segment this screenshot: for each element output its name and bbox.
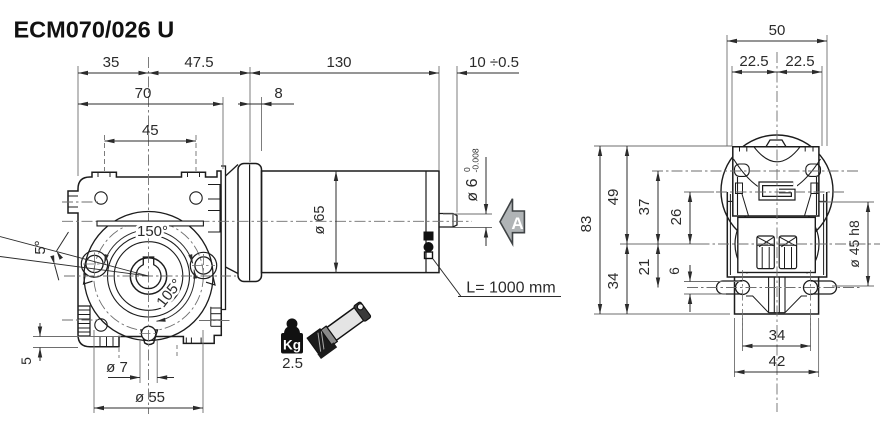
corner bolt circle top-right bbox=[190, 192, 202, 204]
dimension 49 bbox=[626, 146, 628, 244]
svg-text:21: 21 bbox=[636, 259, 653, 276]
svg-text:45: 45 bbox=[142, 122, 159, 139]
extension line slot top bbox=[684, 281, 742, 283]
flange bell cone bbox=[226, 165, 239, 274]
dimension 21 bbox=[657, 244, 659, 288]
motor body cylinder bbox=[262, 171, 440, 273]
extension lines dia 7 bbox=[139, 340, 141, 383]
svg-text:34: 34 bbox=[605, 273, 622, 290]
svg-text:ECM070/026 U: ECM070/026 U bbox=[14, 16, 175, 42]
logo G white plate bbox=[758, 180, 797, 201]
motor end cap line bbox=[425, 171, 427, 273]
output hub circle dia45 bbox=[735, 202, 819, 286]
white sliver cover under terminal box bbox=[741, 273, 813, 276]
centerline left boss stub bbox=[62, 201, 100, 203]
svg-text:70: 70 bbox=[135, 85, 152, 102]
extension line slot bottom bbox=[684, 293, 726, 295]
dashed stub below left foot bbox=[118, 348, 120, 358]
top tab ticks bbox=[97, 172, 99, 177]
extension line top edge bbox=[594, 145, 732, 147]
svg-text:34: 34 bbox=[769, 327, 786, 344]
extension line 45 right dashed bbox=[195, 135, 197, 171]
extension line motor rear face bbox=[438, 66, 440, 170]
hole centerline right vertical bbox=[810, 270, 812, 330]
right foot ribs bbox=[185, 338, 187, 344]
5 degree rays bbox=[0, 237, 149, 277]
gearmotor pictogram icon bbox=[306, 300, 374, 359]
cap sag arc outer bbox=[734, 159, 821, 193]
svg-text:-0.008: -0.008 bbox=[471, 148, 481, 172]
svg-text:37: 37 bbox=[636, 199, 653, 216]
leader L=1000mm bbox=[433, 259, 461, 297]
cap top tick marks bbox=[739, 147, 741, 152]
extension line output axis bbox=[620, 243, 700, 245]
centerline right rib stub bbox=[199, 320, 231, 322]
right lower rib marks bbox=[210, 307, 212, 327]
centerline motor axis horizontal bbox=[62, 220, 472, 222]
terminal right bbox=[779, 236, 796, 269]
centerline upper slot level bbox=[652, 170, 858, 172]
dimension dia 7 bbox=[108, 377, 140, 379]
extension lines 34 bottom bbox=[742, 318, 744, 351]
svg-text:150°: 150° bbox=[137, 223, 168, 240]
corner bolt circle top-left bbox=[95, 192, 107, 204]
cap side tab left bbox=[736, 183, 743, 194]
dimension 34 bottom bbox=[743, 345, 811, 347]
right view centerline output axis bbox=[640, 243, 880, 245]
dimension 22.5 left bbox=[732, 71, 777, 73]
cap side verticals bbox=[737, 177, 739, 215]
svg-text:49: 49 bbox=[605, 189, 622, 206]
flange ring inner line bbox=[249, 165, 251, 281]
svg-text:6: 6 bbox=[666, 267, 682, 275]
extension line flange ring front bbox=[249, 67, 251, 162]
svg-text:47.5: 47.5 bbox=[184, 54, 213, 71]
dimension dia 6 shaft bbox=[443, 213, 492, 215]
dimension 45 bbox=[105, 140, 197, 142]
svg-text:50: 50 bbox=[769, 22, 786, 39]
face circle ring bbox=[108, 235, 190, 317]
dimension dia 65 vertical bbox=[335, 171, 337, 273]
angle arc 105 deg bbox=[157, 270, 195, 322]
extension line body left bbox=[77, 66, 79, 176]
gearbox housing body bbox=[68, 171, 221, 347]
left slot hole bbox=[736, 281, 750, 295]
centerline output axis horizontal bbox=[64, 275, 236, 277]
svg-text:22.5: 22.5 bbox=[739, 53, 768, 70]
dimension 70 bbox=[78, 103, 223, 105]
left lower rib block bbox=[78, 306, 90, 336]
dimension 26 bbox=[689, 192, 691, 244]
left slot tab bbox=[717, 281, 743, 294]
extension lines 50 bbox=[726, 35, 728, 146]
bore circle with keyway bbox=[136, 257, 161, 289]
logo G stylized bbox=[761, 184, 793, 198]
dimension 34 left bbox=[626, 244, 628, 314]
5 degree arrows and label bbox=[57, 232, 69, 251]
svg-text:83: 83 bbox=[578, 216, 595, 233]
motor shaft bbox=[439, 214, 457, 228]
cable gland connector black bbox=[424, 232, 434, 241]
bolt hole bottom plain bbox=[141, 326, 155, 340]
extension line 45 left dashed bbox=[104, 135, 106, 171]
dimension 130 bbox=[250, 72, 439, 74]
face circle outer boss bbox=[84, 212, 213, 341]
svg-text:130: 130 bbox=[326, 54, 351, 71]
bolt circle dia 55 dash-dot bbox=[94, 221, 204, 331]
svg-text:ø 55: ø 55 bbox=[135, 389, 165, 406]
svg-text:A: A bbox=[511, 214, 523, 233]
left foot ribs bbox=[99, 337, 101, 347]
extension lines 22.5 bbox=[731, 66, 733, 146]
dimension 8 bbox=[238, 103, 294, 105]
terminal box white bbox=[738, 217, 816, 272]
left side boss ribs bbox=[68, 195, 78, 197]
dimension 42 bbox=[735, 371, 819, 373]
feet block white bbox=[735, 277, 819, 314]
centre cable channel bbox=[769, 277, 785, 313]
svg-text:ø 7: ø 7 bbox=[106, 359, 128, 376]
svg-text:ø 65: ø 65 bbox=[312, 205, 328, 234]
right side pocket ribs bbox=[208, 185, 220, 233]
svg-text:Kg: Kg bbox=[283, 338, 301, 353]
motor circle rear bbox=[721, 135, 833, 247]
svg-text:10 ÷0.5: 10 ÷0.5 bbox=[469, 54, 519, 71]
terminal left bbox=[757, 236, 774, 269]
face circle ring2 bbox=[114, 242, 183, 311]
body mid inner verticals bbox=[729, 194, 731, 275]
centerline vertical gearbox axis bbox=[148, 57, 150, 414]
extension line shaft tip bbox=[456, 66, 458, 213]
right slot hole bbox=[804, 281, 818, 295]
bottom centre boss cradle bbox=[141, 330, 158, 345]
bolt hole right boss bbox=[190, 252, 216, 278]
bolt hole right bbox=[195, 257, 212, 274]
top dome bump bbox=[766, 140, 786, 147]
dimension 47.5 bbox=[149, 72, 251, 74]
svg-text:2.5: 2.5 bbox=[282, 355, 303, 372]
cap diagonals bbox=[742, 194, 811, 216]
dashed stub below right foot bbox=[176, 345, 178, 357]
cap side tab right bbox=[811, 183, 818, 194]
hole centerline left vertical bbox=[742, 270, 744, 330]
svg-text:42: 42 bbox=[769, 353, 786, 370]
right view centerline hole axis bbox=[687, 287, 862, 289]
weight icon kettlebell Kg 2.5 bbox=[281, 318, 303, 372]
extension lines dia 55 bbox=[93, 330, 95, 413]
bolt hole left bbox=[86, 255, 103, 272]
dimension 5 foot step bbox=[33, 336, 121, 338]
view arrow A grey bbox=[500, 199, 524, 244]
dimension dia 45 h8 bbox=[820, 201, 874, 203]
dimension 10 div 0.5 bbox=[457, 72, 519, 74]
cap square bbox=[733, 147, 819, 216]
dimension 37 bbox=[657, 171, 659, 244]
vent slot left bbox=[735, 164, 750, 176]
extension line motor axis level bbox=[684, 191, 714, 193]
dimension 6 bbox=[689, 265, 691, 282]
svg-text:26: 26 bbox=[668, 209, 685, 226]
svg-text:ø 6: ø 6 bbox=[464, 178, 481, 201]
right view centerline motor axis bbox=[716, 191, 845, 193]
svg-text:22.5: 22.5 bbox=[785, 53, 814, 70]
corner bolt circle bottom-left bbox=[95, 319, 107, 331]
dimension 50 bbox=[727, 40, 827, 42]
svg-text:8: 8 bbox=[274, 85, 282, 102]
svg-text:5: 5 bbox=[18, 357, 34, 365]
angle arc 150 deg bbox=[104, 230, 192, 263]
body mid section outline bbox=[727, 192, 826, 277]
motor flange ring bbox=[238, 164, 262, 282]
dimension dia 55 bbox=[94, 407, 203, 409]
dimension 35 bbox=[78, 72, 149, 74]
cap sag arc inner bbox=[754, 147, 800, 162]
extension line body right for 70 bbox=[222, 97, 224, 169]
extension lines 42 bbox=[734, 318, 736, 377]
right view centerline vertical bbox=[776, 52, 778, 412]
svg-text:L= 1000 mm: L= 1000 mm bbox=[466, 280, 555, 297]
face slot white over centerline bbox=[97, 221, 203, 226]
centerline left rib stub bbox=[62, 319, 100, 321]
dimension 22.5 right bbox=[777, 71, 822, 73]
extension line motor front bbox=[261, 97, 263, 151]
hub circle bbox=[130, 258, 166, 294]
svg-text:35: 35 bbox=[103, 54, 120, 71]
svg-text:5°: 5° bbox=[32, 240, 49, 254]
extension line bottom edge bbox=[594, 313, 730, 315]
dimension 83 bbox=[599, 146, 601, 314]
bolt hole left boss bbox=[81, 251, 107, 277]
svg-text:ø 45 h8: ø 45 h8 bbox=[846, 220, 862, 268]
right slot tab bbox=[811, 281, 837, 294]
flange back plate bbox=[221, 166, 226, 310]
vent slot right bbox=[806, 164, 821, 176]
